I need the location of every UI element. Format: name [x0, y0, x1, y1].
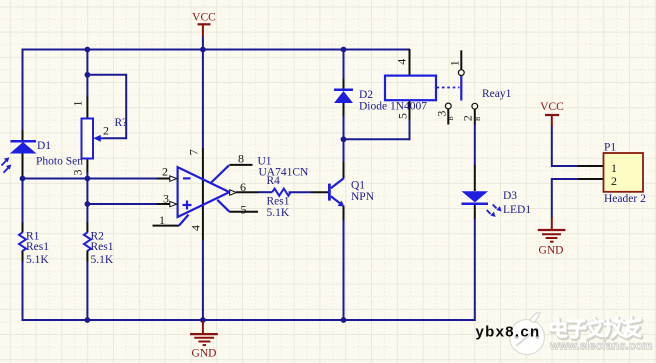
svg-text:5.1K: 5.1K — [91, 254, 114, 266]
svg-text:R?: R? — [115, 117, 128, 129]
svg-text:2: 2 — [162, 165, 168, 179]
svg-text:D2: D2 — [359, 89, 373, 101]
svg-text:5.1K: 5.1K — [26, 254, 49, 266]
svg-text:Res1: Res1 — [26, 241, 49, 253]
svg-text:P1: P1 — [604, 142, 616, 154]
svg-text:D3: D3 — [503, 190, 517, 202]
svg-text:www.elecfans.com: www.elecfans.com — [549, 341, 652, 353]
svg-text:3: 3 — [435, 111, 449, 117]
svg-text:4: 4 — [189, 225, 203, 231]
svg-text:R4: R4 — [267, 175, 281, 187]
svg-text:Reay1: Reay1 — [482, 88, 512, 100]
svg-text:VCC: VCC — [192, 12, 216, 24]
svg-text:6: 6 — [240, 180, 246, 194]
svg-text:GND: GND — [192, 347, 217, 359]
svg-text:2: 2 — [461, 115, 475, 121]
svg-text:5.1K: 5.1K — [267, 207, 290, 219]
svg-text:2: 2 — [611, 174, 617, 188]
svg-text:3: 3 — [71, 170, 85, 176]
svg-text:8: 8 — [238, 151, 244, 165]
svg-text:1: 1 — [71, 101, 85, 107]
svg-text:7: 7 — [187, 149, 201, 155]
svg-text:ybx8.cn: ybx8.cn — [476, 324, 541, 341]
svg-text:5: 5 — [241, 203, 247, 217]
svg-text:2: 2 — [103, 123, 109, 137]
svg-text:Res1: Res1 — [267, 196, 290, 208]
svg-text:GND: GND — [539, 245, 564, 257]
svg-text:1: 1 — [159, 213, 165, 227]
svg-text:3: 3 — [163, 192, 169, 206]
svg-text:4: 4 — [395, 59, 409, 65]
svg-text:NPN: NPN — [351, 191, 375, 203]
svg-text:B: B — [448, 116, 455, 121]
svg-text:Diode 1N4007: Diode 1N4007 — [359, 100, 427, 112]
svg-text:VCC: VCC — [540, 101, 564, 113]
svg-text:LED1: LED1 — [503, 204, 531, 216]
svg-text:B: B — [475, 116, 482, 121]
svg-text:Header 2: Header 2 — [604, 193, 646, 205]
svg-text:Res1: Res1 — [91, 241, 114, 253]
svg-text:D1: D1 — [37, 140, 51, 152]
svg-text:Photo Sen: Photo Sen — [36, 156, 83, 168]
svg-text:Q1: Q1 — [351, 180, 365, 192]
svg-text:5: 5 — [396, 113, 410, 119]
svg-text:1: 1 — [448, 60, 462, 66]
